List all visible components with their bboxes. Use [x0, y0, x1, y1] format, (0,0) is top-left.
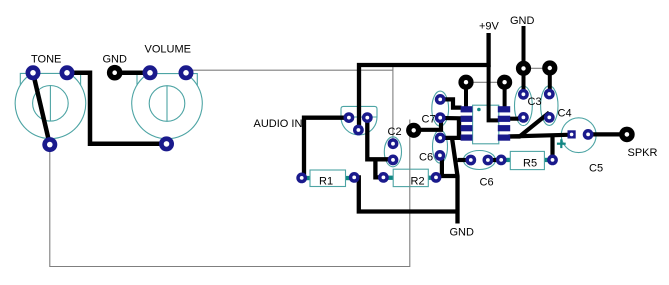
wire C7 minus to U1 pin 2 [440, 116, 461, 121]
pad Q1 emitter [362, 112, 373, 123]
wire ground drop to C6 left [458, 158, 471, 162]
pad C3 minus [518, 112, 529, 123]
wire GND pad to VOLUME pin1 [115, 70, 150, 75]
potentiometer TONE body [15, 73, 86, 138]
wire AUDIO IN to R1 and Q1 base [304, 118, 349, 176]
label R2 [411, 176, 425, 188]
capacitor C6 input-side outline [433, 130, 448, 163]
pad Q1 collector [344, 112, 355, 123]
capacitor C6 output-side outline [463, 151, 495, 170]
wire TONE pin2 to VOLUME pin3 [67, 73, 167, 144]
svg-text:C6: C6 [419, 152, 433, 164]
label C7 [422, 114, 436, 126]
wire R1 right to ground rail [354, 177, 457, 211]
svg-text:TONE: TONE [31, 54, 61, 66]
pad TONE pin1 [26, 65, 41, 80]
pad C5 plus square [568, 130, 576, 138]
wire C3 minus to U1 pin 7 [509, 115, 524, 119]
wire U1 pin 5 to C5 plus [508, 135, 568, 137]
pad C6 input bottom [435, 150, 446, 161]
wire thin trace between supply pads above U1 [466, 81, 505, 83]
pad top GND offboard [516, 61, 531, 76]
label AUDIO IN [254, 118, 303, 130]
pad C7 plus [435, 94, 446, 105]
svg-text:C6: C6 [480, 177, 494, 189]
svg-text:AUDIO IN: AUDIO IN [254, 118, 303, 130]
wire thin trace VOLUME pin3 to C2 plus [186, 67, 393, 144]
pad R2 left [378, 172, 389, 183]
wire thin trace TONE wiper to output pad (left/bottom/right run) [50, 120, 410, 267]
pad VOLUME pin1 [143, 65, 158, 80]
pad C2 minus [388, 155, 399, 166]
wire C7 plus to U1 pin 1 [440, 99, 461, 107]
pad R1 left [296, 173, 307, 184]
svg-text:C2: C2 [388, 126, 402, 138]
wire top rail +9V [359, 33, 489, 130]
label R1 [319, 176, 333, 188]
pad R5 left [496, 155, 507, 166]
wire TONE pin1 to TONE pin3 [33, 73, 50, 145]
capacitor C2 outline [384, 137, 401, 167]
wire C6 bottom drop to R2 stub [440, 155, 444, 176]
wire thin trace between top GND pads [524, 67, 551, 69]
label C6 output [480, 177, 494, 189]
wire C4 minus to U1 pin 5 [509, 113, 549, 137]
pad C4 minus [544, 112, 555, 123]
label C4 [558, 108, 572, 120]
wire C5 node down to R5 right [550, 136, 554, 160]
label C2 [388, 126, 402, 138]
capacitor C3 outline [515, 86, 533, 126]
pad C5 minus [583, 129, 594, 140]
label C6 input [419, 152, 433, 164]
capacitor C4 outline [541, 86, 558, 126]
pad C4 plus [544, 89, 555, 100]
pad supply offboard above pin8 [497, 75, 512, 90]
pad supply offboard above pin1 [458, 75, 473, 90]
op-amp U1 pin pads column 5-8 [498, 106, 510, 141]
potentiometer VOLUME body [132, 74, 203, 139]
pad R5 right [547, 155, 558, 166]
svg-text:GND: GND [103, 54, 128, 66]
label C5 [589, 163, 603, 175]
wire second top pad to C4 plus [548, 68, 552, 94]
wire main ground drop to GND label [452, 138, 458, 224]
wire output pad to C7 minus node [414, 118, 441, 130]
polarity plus mark C5 [557, 139, 566, 148]
pad SPKR offboard [619, 127, 635, 143]
svg-text:SPKR: SPKR [628, 147, 658, 159]
transistor Q1 outline [341, 106, 377, 135]
label TONE [31, 54, 61, 66]
label GND bottom [450, 227, 475, 239]
pad C6 output right [483, 155, 494, 166]
svg-text:+9V: +9V [479, 21, 500, 33]
wire thin trace crossing R2 (redraw over box) [409, 169, 411, 186]
pad TONE pin3 [42, 137, 57, 152]
label GND left [103, 54, 128, 66]
svg-text:R1: R1 [319, 176, 333, 188]
pad GND offboard left [107, 65, 123, 81]
pad VOLUME pin3 [159, 136, 174, 151]
resistor R1 body [305, 170, 351, 187]
pad R2 right [431, 172, 442, 183]
pad C6 output left [465, 155, 476, 166]
capacitor C7 outline [432, 91, 449, 126]
wire supply pad to U1 pin 8 [503, 83, 507, 108]
label SPKR [628, 147, 658, 159]
wire +9V down to U1 pin 7 [489, 65, 499, 120]
wire R2 right stub to ground drop [436, 174, 458, 178]
wire pin2-pin3-pin4 tie column [457, 118, 461, 141]
wire top GND to C3 plus [522, 26, 526, 94]
wire Q1 emitter to C2 minus [367, 119, 393, 159]
resistor R5 body [502, 151, 551, 169]
pad VOLUME pin2 [179, 65, 194, 80]
wire supply pad to U1 pin 1 [464, 83, 468, 108]
pad output offboard [406, 123, 421, 138]
pad TONE pin2 [60, 65, 75, 80]
svg-text:GND: GND [450, 227, 475, 239]
wire C5 minus to SPKR pad [588, 132, 627, 136]
wire C6 right to R5 left [488, 158, 501, 162]
pad R1 right [349, 172, 360, 183]
pad C6 input top [435, 133, 446, 144]
svg-text:C4: C4 [558, 108, 572, 120]
label GND top [510, 15, 535, 27]
label R5 [523, 158, 537, 170]
pad C2 plus [388, 138, 399, 149]
svg-text:C5: C5 [589, 163, 603, 175]
svg-text:C3: C3 [528, 96, 542, 108]
svg-text:VOLUME: VOLUME [145, 44, 191, 56]
svg-text:R5: R5 [523, 158, 537, 170]
pad C3 plus [518, 89, 529, 100]
op-amp U1 body [473, 105, 499, 144]
resistor R2 body [385, 169, 434, 186]
svg-text:C7: C7 [422, 114, 436, 126]
label VOLUME [145, 44, 191, 56]
svg-text:GND: GND [510, 15, 535, 27]
capacitor C5 outline [561, 118, 596, 153]
svg-text:R2: R2 [411, 176, 425, 188]
wire junction down to R2 left [375, 159, 383, 177]
label +9V [479, 21, 500, 33]
pad C7 minus [435, 112, 446, 123]
pad Q1 base [353, 125, 364, 136]
wire C6 top to U1 pin 4 [440, 136, 461, 140]
label C3 [528, 96, 542, 108]
pad second top offboard [542, 60, 557, 75]
op-amp U1 pin pads column 1-4 [461, 106, 473, 141]
